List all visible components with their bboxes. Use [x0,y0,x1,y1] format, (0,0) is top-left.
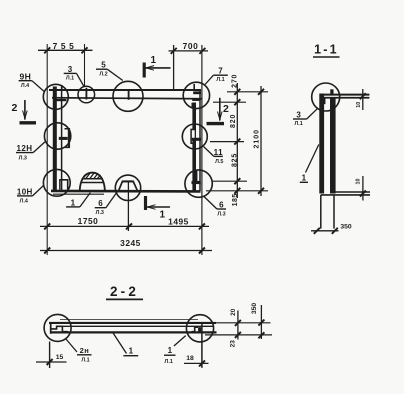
wire left stile inner line [61,85,63,190]
svg-text:1: 1 [302,174,307,183]
dimension 18 2-2 [184,362,209,364]
svg-text:Л.1: Л.1 [81,357,89,363]
dimension tick x129 [126,223,132,229]
svg-text:1495: 1495 [168,217,189,227]
wire extension trapezoid x128.4 [127,181,129,231]
svg-text:20: 20 [230,308,237,316]
svg-text:12Н: 12Н [17,144,33,153]
svg-text:3245: 3245 [120,238,141,248]
dimension tick x202 [199,223,205,229]
section mark 1 bottom arrow [147,206,171,208]
dimension 3245 line [40,250,212,252]
section mark 2 right bar [207,122,225,125]
svg-text:6: 6 [219,201,224,210]
detail circle mid-left [44,123,70,149]
wire extension y142 [210,141,244,143]
stile stub above rail top-left [61,85,63,90]
channel web outer 1-1 [319,94,324,194]
panel bottom line 2-2 [51,331,217,333]
detail circle 3 small top [78,86,95,103]
trapezoid plate [119,181,137,190]
dimension 3245 tick left [44,248,50,254]
dimension outer vertical line 2100 [260,86,262,196]
detail circle top-left corner [43,84,68,109]
dimension 2100 tick top [258,89,264,95]
detail circle bottom-right [185,170,212,197]
weld bar top-left corner [55,99,66,101]
dimension tick 825/185 [234,178,240,184]
svg-text:825: 825 [231,153,238,167]
tail outline 1-1 [320,195,322,229]
dimension 700 line [169,50,209,52]
svg-text:185: 185 [232,193,239,206]
weld mark circle 5 [128,90,130,100]
gusset dome chord 2 [81,182,104,184]
panel top line 2-2 [49,322,216,324]
gusset dome chord 1 [82,178,103,180]
dimension 1750/1495 line [40,225,209,227]
section mark 1 bottom bar [144,196,147,210]
svg-text:Л.3: Л.3 [19,155,27,161]
detail circle 5 mid top [113,81,143,111]
wire right stile inner line [199,90,201,191]
svg-text:Л.1: Л.1 [66,76,74,82]
weld bar mid-right [192,138,201,141]
dimension 15 2-2 [36,361,67,363]
svg-text:Л.3: Л.3 [217,211,225,217]
dimension tick 820/825 [234,139,240,145]
section mark 1 top bar [143,63,146,78]
wire extension y102.5 [213,101,246,103]
svg-text:10: 10 [356,102,362,108]
svg-text:2-2: 2-2 [110,284,139,299]
svg-text:2: 2 [12,102,18,114]
section mark 2 left bar [20,121,37,124]
svg-text:10: 10 [355,179,361,185]
svg-text:5: 5 [101,61,106,70]
detail circle 2-2 left [44,314,71,341]
svg-text:1: 1 [151,55,157,66]
svg-text:Л.4: Л.4 [20,199,28,205]
bracket mid-right [191,130,194,138]
detail circle mid-right [182,124,207,149]
svg-text:15: 15 [56,354,64,361]
weld mark circle 3 [85,88,87,100]
gusset dome outline [80,173,105,191]
svg-text:3: 3 [68,65,73,74]
svg-text:6: 6 [98,199,103,208]
dimension 755 tick left [44,47,50,53]
wire extension y190.5 [206,190,268,192]
weld bar bottom-right [192,181,201,184]
wire extension y91.8 [227,91,268,93]
svg-text:2н: 2н [80,346,90,355]
svg-text:11: 11 [214,148,223,157]
step detail 1-1 [322,98,325,107]
svg-text:1-1: 1-1 [314,43,339,57]
dimension 2100 tick bottom [258,188,264,194]
dimension tick 185 bottom [234,188,240,194]
dimension 755 tick right [82,47,88,53]
dimension tick x47 [44,223,50,229]
detail circle section 1-1 [312,83,340,111]
top flange 1-1 [322,94,369,96]
dimension tick 270/820 [234,99,240,105]
dimension 350 1-1 [311,230,339,232]
panel left edge 2-2 [50,322,52,334]
wire top rail top line [49,89,201,91]
detail circle bottom-left [43,169,70,196]
svg-text:1: 1 [160,210,166,221]
svg-text:Л.1: Л.1 [294,121,302,127]
svg-text:2100: 2100 [253,129,260,149]
wire extension 2-2 y322.8 right [216,322,271,324]
wire extension x84.5 [84,44,86,87]
svg-text:18: 18 [186,355,194,362]
top flange tick 1-1 [362,89,364,110]
wire top rail bottom line [52,98,202,99]
dimension inner vertical line [236,83,238,198]
wire extension left x47 [46,44,48,255]
svg-text:23: 23 [230,340,237,348]
wire extension 2-2 y334.9 right [205,334,272,336]
svg-text:9Н: 9Н [20,71,32,81]
svg-text:350: 350 [340,224,352,231]
svg-text:Л.2: Л.2 [99,71,107,77]
panel ghost line 2-2 [60,319,198,321]
svg-text:755: 755 [53,41,78,51]
svg-text:3: 3 [296,111,301,120]
svg-text:2: 2 [223,103,229,115]
wire extension right x202 [201,45,203,255]
wire extension 2-2 left x49.6 [49,342,51,369]
section mark 2 left arrow [24,100,26,120]
detail circle top-right corner [183,82,209,108]
dimension 755 line [38,49,93,51]
dimension 700 tick right [199,48,205,54]
svg-text:1: 1 [129,347,134,356]
wire extension x173.6 [173,45,175,90]
svg-text:820: 820 [230,114,237,128]
panel mid line 2-2 [63,325,214,327]
svg-text:Л.4: Л.4 [21,83,29,89]
gusset dome hatch [86,173,90,178]
svg-text:270: 270 [231,74,238,88]
detail circle 2-2 right [186,315,213,342]
svg-text:1: 1 [168,346,173,355]
section mark 2 right arrow [219,98,221,121]
lower flange tick 1-1 [362,176,364,201]
svg-text:Л.1: Л.1 [216,77,224,83]
bracket bottom-left [59,180,67,190]
wire right stile web [192,103,196,191]
svg-text:350: 350 [251,303,258,315]
svg-text:Л.1: Л.1 [165,359,173,365]
lower flange 1-1 [334,191,370,193]
wire extension 2-2 x202 down [201,324,203,368]
svg-text:Л.3: Л.3 [96,210,104,216]
dimension 700 tick left [171,48,177,54]
bracket bottom-right [196,171,198,182]
wire extension y181 [212,180,247,182]
dimension 20/23 vertical line 2-2 [237,311,239,340]
svg-text:700: 700 [183,41,199,51]
dimension 3245 tick right [199,248,205,254]
channel web inner 1-1 [330,98,336,194]
wire left stile web [53,87,57,191]
wire bottom rail [51,190,201,193]
wire bottom rail inner line [53,193,104,195]
svg-text:Л.5: Л.5 [215,159,223,165]
bracket mid-left [65,129,70,148]
weld bar mid-left [59,137,68,140]
weld marks top-right corner [193,91,201,94]
dimension tick 270 top [234,89,240,95]
section mark 1 top arrow [145,67,171,69]
rebate step left 2-2 [51,326,68,331]
svg-text:7: 7 [218,67,223,76]
detail circle trapezoid [115,175,140,200]
dimension 350 vertical line 2-2 [260,305,262,339]
svg-text:1750: 1750 [78,216,99,226]
rebate step right 2-2 [192,327,199,332]
